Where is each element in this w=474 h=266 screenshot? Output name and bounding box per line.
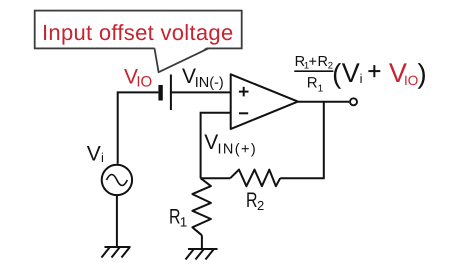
wire op-amp output: [298, 101, 349, 103]
label VIO: [124, 66, 152, 91]
svg-text:V: V: [87, 142, 101, 165]
svg-text:V: V: [342, 58, 360, 88]
svg-text:2: 2: [257, 198, 264, 213]
svg-text:IO: IO: [136, 73, 152, 90]
label R2: [246, 189, 264, 213]
wire -in feedback down: [201, 113, 231, 178]
label VIN(-): [182, 65, 224, 91]
svg-text:1: 1: [180, 215, 188, 230]
svg-text:R: R: [169, 206, 181, 229]
svg-text:i: i: [360, 71, 363, 86]
svg-text:R: R: [307, 75, 318, 92]
op-amp U1: [231, 74, 298, 129]
formula gain fraction: [294, 54, 333, 94]
svg-text:i: i: [101, 150, 104, 165]
svg-text:IO: IO: [404, 73, 418, 88]
formula output expression: [332, 58, 427, 89]
label Vi: [87, 142, 104, 165]
wire output to feedback: [280, 102, 324, 178]
label VIN(+): [204, 131, 257, 157]
resistor R2: [201, 170, 281, 187]
source Vi: [102, 165, 132, 195]
ground (under R1): [186, 249, 218, 260]
battery VIO: [158, 75, 171, 111]
svg-text:+: +: [309, 54, 317, 70]
svg-text:V: V: [204, 131, 218, 154]
svg-text:IN(-): IN(-): [195, 75, 224, 91]
svg-text:): ): [418, 58, 427, 89]
wire battery to op-amp +in: [171, 91, 231, 93]
svg-text:IN(+): IN(+): [218, 141, 258, 157]
resistor R1: [192, 178, 211, 249]
wire battery to source (top-left): [118, 92, 159, 163]
label R1: [169, 206, 187, 230]
wire source to ground: [116, 195, 118, 247]
svg-text:1: 1: [318, 83, 324, 94]
callout box: [35, 11, 242, 73]
svg-text:R: R: [318, 54, 328, 70]
svg-text:Input offset voltage: Input offset voltage: [42, 20, 234, 45]
ground (under Vi): [102, 247, 131, 258]
output terminal: [350, 98, 357, 105]
svg-text:R: R: [246, 189, 258, 212]
svg-text:(: (: [332, 58, 341, 89]
